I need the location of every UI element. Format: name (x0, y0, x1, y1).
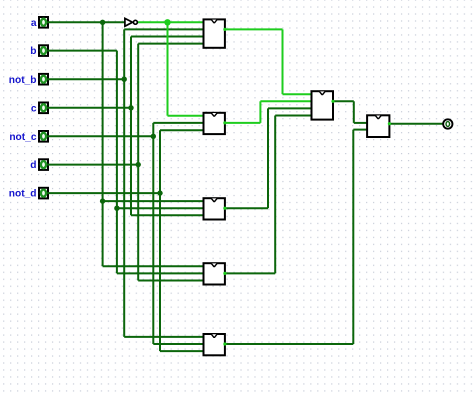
junction d row (136, 162, 141, 167)
wire not_d trunk vertical (159, 130, 161, 351)
junction not_b row (122, 77, 127, 82)
wire from pin not_d (47, 192, 160, 194)
junction c row (128, 105, 133, 110)
wire U6 output net (333, 101, 367, 123)
wire U4 output net (225, 116, 312, 274)
subcircuit U5 (AND term 5) (204, 334, 227, 355)
junction a/NOT input (100, 20, 105, 25)
junction b/U3 in2 (114, 206, 119, 211)
svg-text:not_b: not_b (9, 75, 37, 86)
wire not_c branch to U2 in2 (153, 122, 203, 124)
wire from pin d (47, 164, 138, 166)
NOT gate (inverter on a) (125, 18, 137, 26)
wire from pin not_c (47, 135, 153, 137)
wire a trunk vertical (102, 22, 104, 266)
wire not_c branch to U5 in2 (153, 343, 203, 345)
svg-text:b: b (30, 46, 36, 57)
junction not_c row (151, 134, 156, 139)
svg-text:not_d: not_d (9, 189, 37, 200)
wire c branch to U1 in3 (131, 36, 204, 38)
input pin not_c (39, 131, 48, 142)
wire not_b branch to U1 in2 (124, 28, 203, 30)
wire U5 output net (225, 130, 367, 344)
subcircuit U3 (AND term 3) (204, 198, 227, 219)
wire a branch to U3 in1 (103, 200, 204, 202)
subcircuit U7 (OR stage 2) (367, 115, 391, 137)
input pin d (39, 159, 48, 170)
wire from pin c (47, 107, 131, 109)
wire c branch to U3 in3 (131, 214, 204, 216)
subcircuit U1 (AND term 1) (204, 19, 227, 47)
junction not_a (high) (164, 19, 170, 25)
svg-text:c: c (31, 103, 37, 114)
input pin not_d (39, 188, 48, 199)
wire d branch to U1 in4 (138, 43, 203, 45)
junction not_d row (157, 190, 162, 195)
wire d trunk vertical (137, 44, 139, 281)
wire not_b branch to U5 in1 (124, 336, 203, 338)
wire from pin not_b (47, 78, 124, 80)
svg-text:not_c: not_c (9, 132, 37, 143)
wire NOT output to U1 in1 (high) (138, 21, 204, 23)
svg-text:d: d (30, 160, 36, 171)
wire b trunk vertical (116, 51, 118, 274)
wire U2 output net (high) (225, 101, 312, 123)
wire a branch to U4 in1 (103, 265, 204, 267)
input pin c (39, 103, 48, 114)
wire not_b trunk vertical (123, 29, 125, 337)
wire from pin b (47, 50, 117, 52)
output pin out (443, 119, 452, 128)
wire b branch to U4 in2 (117, 272, 204, 274)
wire not_c trunk vertical (152, 123, 154, 344)
wire not_d branch to U2 in3 (160, 129, 204, 131)
input pin a (39, 17, 48, 28)
wire U1 output net (high) (225, 29, 312, 94)
wire U7 output to pin out (389, 123, 443, 125)
subcircuit U4 (AND term 4) (204, 263, 227, 284)
wire not_d branch to U5 in3 (160, 350, 204, 352)
input pin b (39, 45, 48, 56)
junction a/U3 in1 (100, 198, 105, 203)
input pin not_b (39, 74, 48, 85)
wire b branch to U3 in2 (117, 207, 204, 209)
wire from pin a (47, 21, 124, 23)
svg-text:a: a (31, 18, 37, 29)
wire c trunk vertical (130, 37, 132, 216)
subcircuit U2 (AND term 2) (204, 113, 227, 134)
wire d branch to U4 in3 (138, 280, 203, 282)
wire not_a branch to U2 in1 (high) (168, 115, 204, 117)
wire not_a trunk vertical (high) (167, 22, 169, 115)
wire U3 output net (225, 108, 312, 208)
subcircuit U6 (OR stage 1) (312, 91, 335, 119)
